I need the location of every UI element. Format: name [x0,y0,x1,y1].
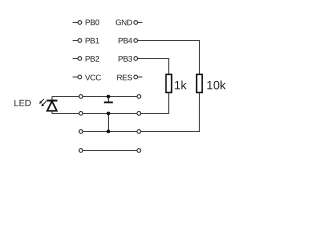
pin GND circle [134,21,138,25]
LED D1 top stub [51,96,53,100]
header pin C-right [137,130,141,134]
ground symbol stub [107,96,109,101]
svg-text:LED: LED [14,98,32,108]
header pin B-right [137,112,141,116]
svg-text:PB4: PB4 [118,36,133,45]
resistor R2 body [197,74,203,92]
svg-text:1k: 1k [174,78,188,92]
ground symbol bar [104,101,113,103]
pin PB1 stub [73,39,78,41]
junction dot row A [107,95,111,99]
svg-text:10k: 10k [206,78,226,92]
wire PB4 to R2 top [138,41,200,75]
header pin D-right [137,149,141,153]
wire row A (GND net) [52,95,139,97]
pin GND stub [138,22,143,24]
LED D1 light arrow 1 [41,101,46,106]
svg-text:PB1: PB1 [85,36,100,45]
wire row C [81,130,139,132]
pin RES circle [134,75,138,79]
wire R2 bottom to row C [139,93,200,132]
pin VCC circle [78,75,82,79]
svg-text:PB2: PB2 [85,55,100,64]
svg-text:VCC: VCC [85,73,102,82]
header pin A-right [137,95,141,99]
pin PB0 circle [78,21,82,25]
header pin C-left [79,130,83,134]
LED D1 light arrow 2 [39,99,44,104]
wire row D [81,149,139,151]
pin PB4 circle [134,39,138,43]
svg-text:PB3: PB3 [118,55,133,64]
pin PB3 circle [134,57,138,61]
resistor R1 body [166,74,172,92]
header pin A-left [79,95,83,99]
pin PB1 circle [78,39,82,43]
wire R1 bottom to row B [139,93,169,114]
header pin D-left [79,149,83,153]
svg-text:RES: RES [117,73,133,82]
header pin B-left [79,112,83,116]
junction dot row B [107,112,111,116]
svg-text:PB0: PB0 [85,18,100,27]
pin RES stub [138,76,143,78]
wire row B to row C vertical [107,113,109,131]
LED D1 bottom stub [51,111,53,114]
pin PB2 stub [73,57,78,59]
wire PB3 to R1 top [138,59,169,75]
wire row B (LED anode net) [52,112,139,114]
pin PB2 circle [78,57,82,61]
pin PB0 stub [73,21,78,23]
pin VCC stub [73,76,78,78]
LED D1 triangle [47,101,57,111]
junction dot row C [107,130,111,134]
LED D1 cathode bar [47,100,58,102]
svg-text:GND: GND [115,18,132,27]
